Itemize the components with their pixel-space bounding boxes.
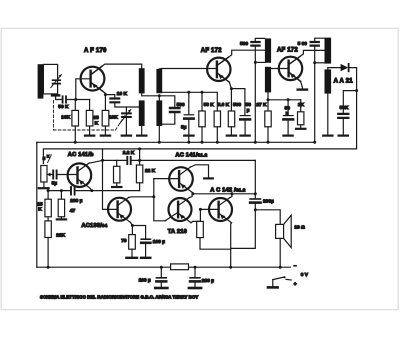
- svg-text:AF 172: AF 172: [277, 48, 298, 54]
- capacitor C10 500: [311, 38, 325, 144]
- T1 secondary winding: [156, 69, 162, 93]
- wire rail2 to 22K node: [139, 149, 141, 161]
- wire C16 return: [231, 210, 256, 249]
- resistor R7 27K: [265, 100, 271, 144]
- wire T1 secondary return to rail: [158, 126, 160, 142]
- resistor R11 15K: [45, 191, 51, 221]
- svg-text:1K: 1K: [298, 102, 305, 108]
- svg-text:6 V: 6 V: [301, 272, 309, 278]
- ground bus rail1: [37, 141, 314, 144]
- wire T3 secondary to diode: [328, 68, 341, 70]
- svg-text:2.2 K: 2.2 K: [123, 150, 135, 156]
- resistor R1 16K: [72, 100, 79, 144]
- emitter network wire: [48, 190, 70, 192]
- svg-text:560: 560: [233, 102, 241, 108]
- wire T1 to Q2 base: [159, 68, 216, 71]
- wire C12 to Q4 base: [58, 174, 77, 176]
- resistor R6 560: [227, 89, 236, 136]
- volume potentiometer P1 5K: [39, 166, 49, 189]
- transistor Q3 AF172: [279, 57, 302, 82]
- oscillator trimmer capacitor C4: [120, 107, 131, 135]
- svg-text:500: 500: [240, 41, 248, 47]
- wire base riser: [76, 79, 90, 100]
- antenna coil L1: [43, 64, 57, 94]
- wire Q4 emitter: [90, 188, 92, 190]
- node base bias: [74, 98, 77, 101]
- wire Q5 collector to terminal: [191, 165, 213, 179]
- svg-text:27 K: 27 K: [256, 102, 267, 108]
- svg-text:200 µ: 200 µ: [202, 278, 214, 284]
- svg-text:100 µ: 100 µ: [139, 277, 151, 283]
- T1 secondary lower winding: [156, 100, 162, 126]
- ferrite rod antenna: [38, 64, 44, 98]
- wire Q1 emitter node: [103, 92, 115, 98]
- transistor Q8 AC142/01.2: [209, 198, 232, 223]
- signal rail2: [43, 91, 356, 164]
- T3 secondary: [325, 69, 332, 93]
- coil bottom terminal bar: [51, 94, 61, 96]
- svg-text:50K: 50K: [340, 105, 349, 111]
- tuning gang dashed link: [54, 101, 127, 131]
- transistor Q2 AF172: [207, 57, 230, 82]
- wire T1 link: [142, 93, 175, 107]
- emitter network wire cont: [76, 190, 140, 192]
- svg-text:10 K: 10 K: [117, 91, 128, 97]
- svg-text:A F 170: A F 170: [84, 48, 107, 54]
- capacitor C8 500: [251, 38, 265, 143]
- transistor Q5 AC141/01.2: [169, 167, 193, 192]
- bottom supply rail3 left: [37, 266, 171, 268]
- ground C4: [122, 135, 131, 137]
- svg-text:500: 500: [177, 102, 185, 108]
- resistor R12 47: [57, 191, 66, 220]
- svg-text:–: –: [294, 264, 297, 269]
- wire Q7 emitter to R15: [191, 221, 200, 222]
- wire diode out: [350, 68, 357, 91]
- ground T3 secondary: [323, 94, 332, 136]
- svg-text:47: 47: [70, 208, 76, 214]
- resistor R3 13K: [102, 110, 109, 134]
- IF transformer T1 primary winding: [139, 68, 145, 93]
- wire Q2 collector to T2 tap: [228, 50, 265, 57]
- wire Q8 emitter: [230, 223, 233, 267]
- wire Q3 collector to T3 tap: [300, 50, 325, 56]
- svg-text:85: 85: [93, 115, 99, 121]
- ground R2: [85, 135, 94, 137]
- node 56K: [201, 91, 204, 94]
- resistor R8 1K: [296, 100, 305, 129]
- electrolytic C18 200u: [189, 266, 201, 288]
- wire Q6 collector: [129, 196, 154, 199]
- wire Q8 base: [200, 208, 218, 210]
- resistor R5 5.6K: [214, 111, 220, 144]
- svg-text:TA 210: TA 210: [168, 229, 187, 235]
- node 5u: [187, 91, 190, 94]
- resistor R4 56K: [199, 92, 205, 144]
- electrolytic C7 50u: [240, 116, 250, 136]
- wire Q5 emitter to node: [191, 192, 194, 193]
- wire detector to C11: [343, 91, 356, 114]
- electrolytic C15 100u: [132, 226, 150, 258]
- svg-text:10 Ω: 10 Ω: [294, 225, 305, 231]
- svg-text:79: 79: [121, 238, 127, 244]
- IF transformer T3 primary: [325, 38, 332, 64]
- svg-text:50: 50: [246, 102, 252, 108]
- resistor R15: [197, 221, 231, 249]
- IF transformer T2 primary: [265, 38, 271, 62]
- electrolytic C16 200u: [250, 199, 260, 211]
- svg-text:5.6 K: 5.6 K: [218, 102, 230, 108]
- svg-text:200µ: 200µ: [263, 198, 274, 204]
- svg-text:SCHEMA ELETTRICO DEL RADIORICE: SCHEMA ELETTRICO DEL RADIORICEVITORE G.B…: [40, 294, 198, 299]
- svg-text:AC 141/b: AC 141/b: [68, 152, 94, 158]
- svg-text:K: K: [47, 154, 50, 158]
- svg-text:K: K: [95, 121, 99, 127]
- svg-text:µ: µ: [247, 108, 250, 113]
- resistor R13 22K: [45, 221, 51, 269]
- output coupling node: [254, 160, 256, 198]
- electrolytic C9 50u: [283, 100, 293, 136]
- wire Q8 collector: [230, 194, 232, 198]
- wire Q6 emitter node: [131, 223, 133, 226]
- wire AGC node: [268, 99, 301, 101]
- svg-text:5µ: 5µ: [52, 181, 58, 187]
- battery switch S1: [268, 276, 291, 287]
- electrolytic C14 200u: [71, 187, 75, 195]
- wire AC138 base drive: [103, 149, 118, 210]
- wire C16 to speaker: [255, 210, 280, 225]
- ground T1 lower: [137, 126, 146, 136]
- wire pot wiper to C12: [50, 174, 53, 176]
- transistor Q6 AC138/04: [108, 197, 131, 222]
- capacitor C13 2.2K: [127, 157, 130, 164]
- speaker LS 10 ohm: [276, 215, 292, 269]
- wire T2 secondary to Q3 base: [271, 68, 288, 70]
- resistor R9: [112, 160, 121, 187]
- svg-text:5 00: 5 00: [298, 41, 308, 47]
- wire C2 to base node: [67, 99, 90, 101]
- svg-text:A A 21: A A 21: [334, 79, 354, 85]
- left vertical bus wire: [36, 142, 38, 267]
- ground R3: [101, 135, 110, 137]
- diode D1 AA21: [341, 64, 349, 71]
- transistor Q1 AF170: [81, 66, 105, 91]
- svg-text:+: +: [294, 283, 297, 288]
- bottom supply rail3 right: [189, 266, 291, 268]
- capacitor C5 500: [170, 108, 179, 112]
- T2 secondary: [265, 67, 271, 93]
- svg-text:100 µ: 100 µ: [153, 239, 165, 245]
- wire Q1 collector to T1: [102, 64, 142, 68]
- capacitor C11 50K: [338, 114, 348, 136]
- variable tuning capacitor C1: [51, 75, 62, 88]
- electrolytic C12 5u: [53, 170, 56, 178]
- svg-text:5: 5: [43, 156, 46, 162]
- svg-text:5µ: 5µ: [181, 124, 187, 130]
- svg-text:22K: 22K: [56, 233, 65, 239]
- wire T2 secondary return: [267, 92, 269, 99]
- transistor Q7 TA210: [169, 198, 192, 223]
- transistor Q4 AC141/b: [68, 163, 92, 188]
- svg-text:56 K: 56 K: [204, 102, 215, 108]
- feedback line cont: [132, 159, 256, 161]
- driver bus wire: [193, 193, 255, 195]
- wire Q2 emitter node: [229, 82, 245, 115]
- wire C5 to T1: [162, 113, 175, 125]
- electrolytic C17 100u: [155, 266, 167, 288]
- svg-text:13K: 13K: [109, 115, 118, 121]
- svg-text:µ: µ: [286, 111, 289, 116]
- electrolytic C6 5u: [184, 92, 193, 144]
- resistor R2 85K: [86, 100, 93, 135]
- svg-text:K: K: [38, 206, 42, 212]
- wire Q5 base: [154, 178, 179, 180]
- resistor R10 22K: [136, 160, 142, 190]
- feedback line: [103, 159, 127, 161]
- T1 primary lower winding: [139, 100, 145, 126]
- resistor R14 79: [126, 226, 137, 258]
- base drive vertical: [152, 179, 177, 221]
- wire emitter to R3: [104, 95, 106, 111]
- Q3 emitter ground: [298, 81, 307, 89]
- svg-text:22 K: 22 K: [145, 168, 156, 174]
- wire Q4 collector to feedback line: [89, 160, 103, 163]
- svg-text:200 µ: 200 µ: [70, 198, 82, 204]
- bottom resistor R16: [171, 264, 189, 270]
- wire coil to C2: [56, 97, 62, 100]
- svg-text:AF 172: AF 172: [201, 48, 222, 54]
- capacitor C3 10K: [110, 99, 138, 108]
- capacitor C2 50K: [63, 96, 66, 102]
- supply wire to IF stage: [162, 92, 217, 111]
- wire Q7 collector: [189, 194, 192, 198]
- svg-text:50 K: 50 K: [58, 104, 69, 110]
- svg-text:16K: 16K: [61, 114, 70, 120]
